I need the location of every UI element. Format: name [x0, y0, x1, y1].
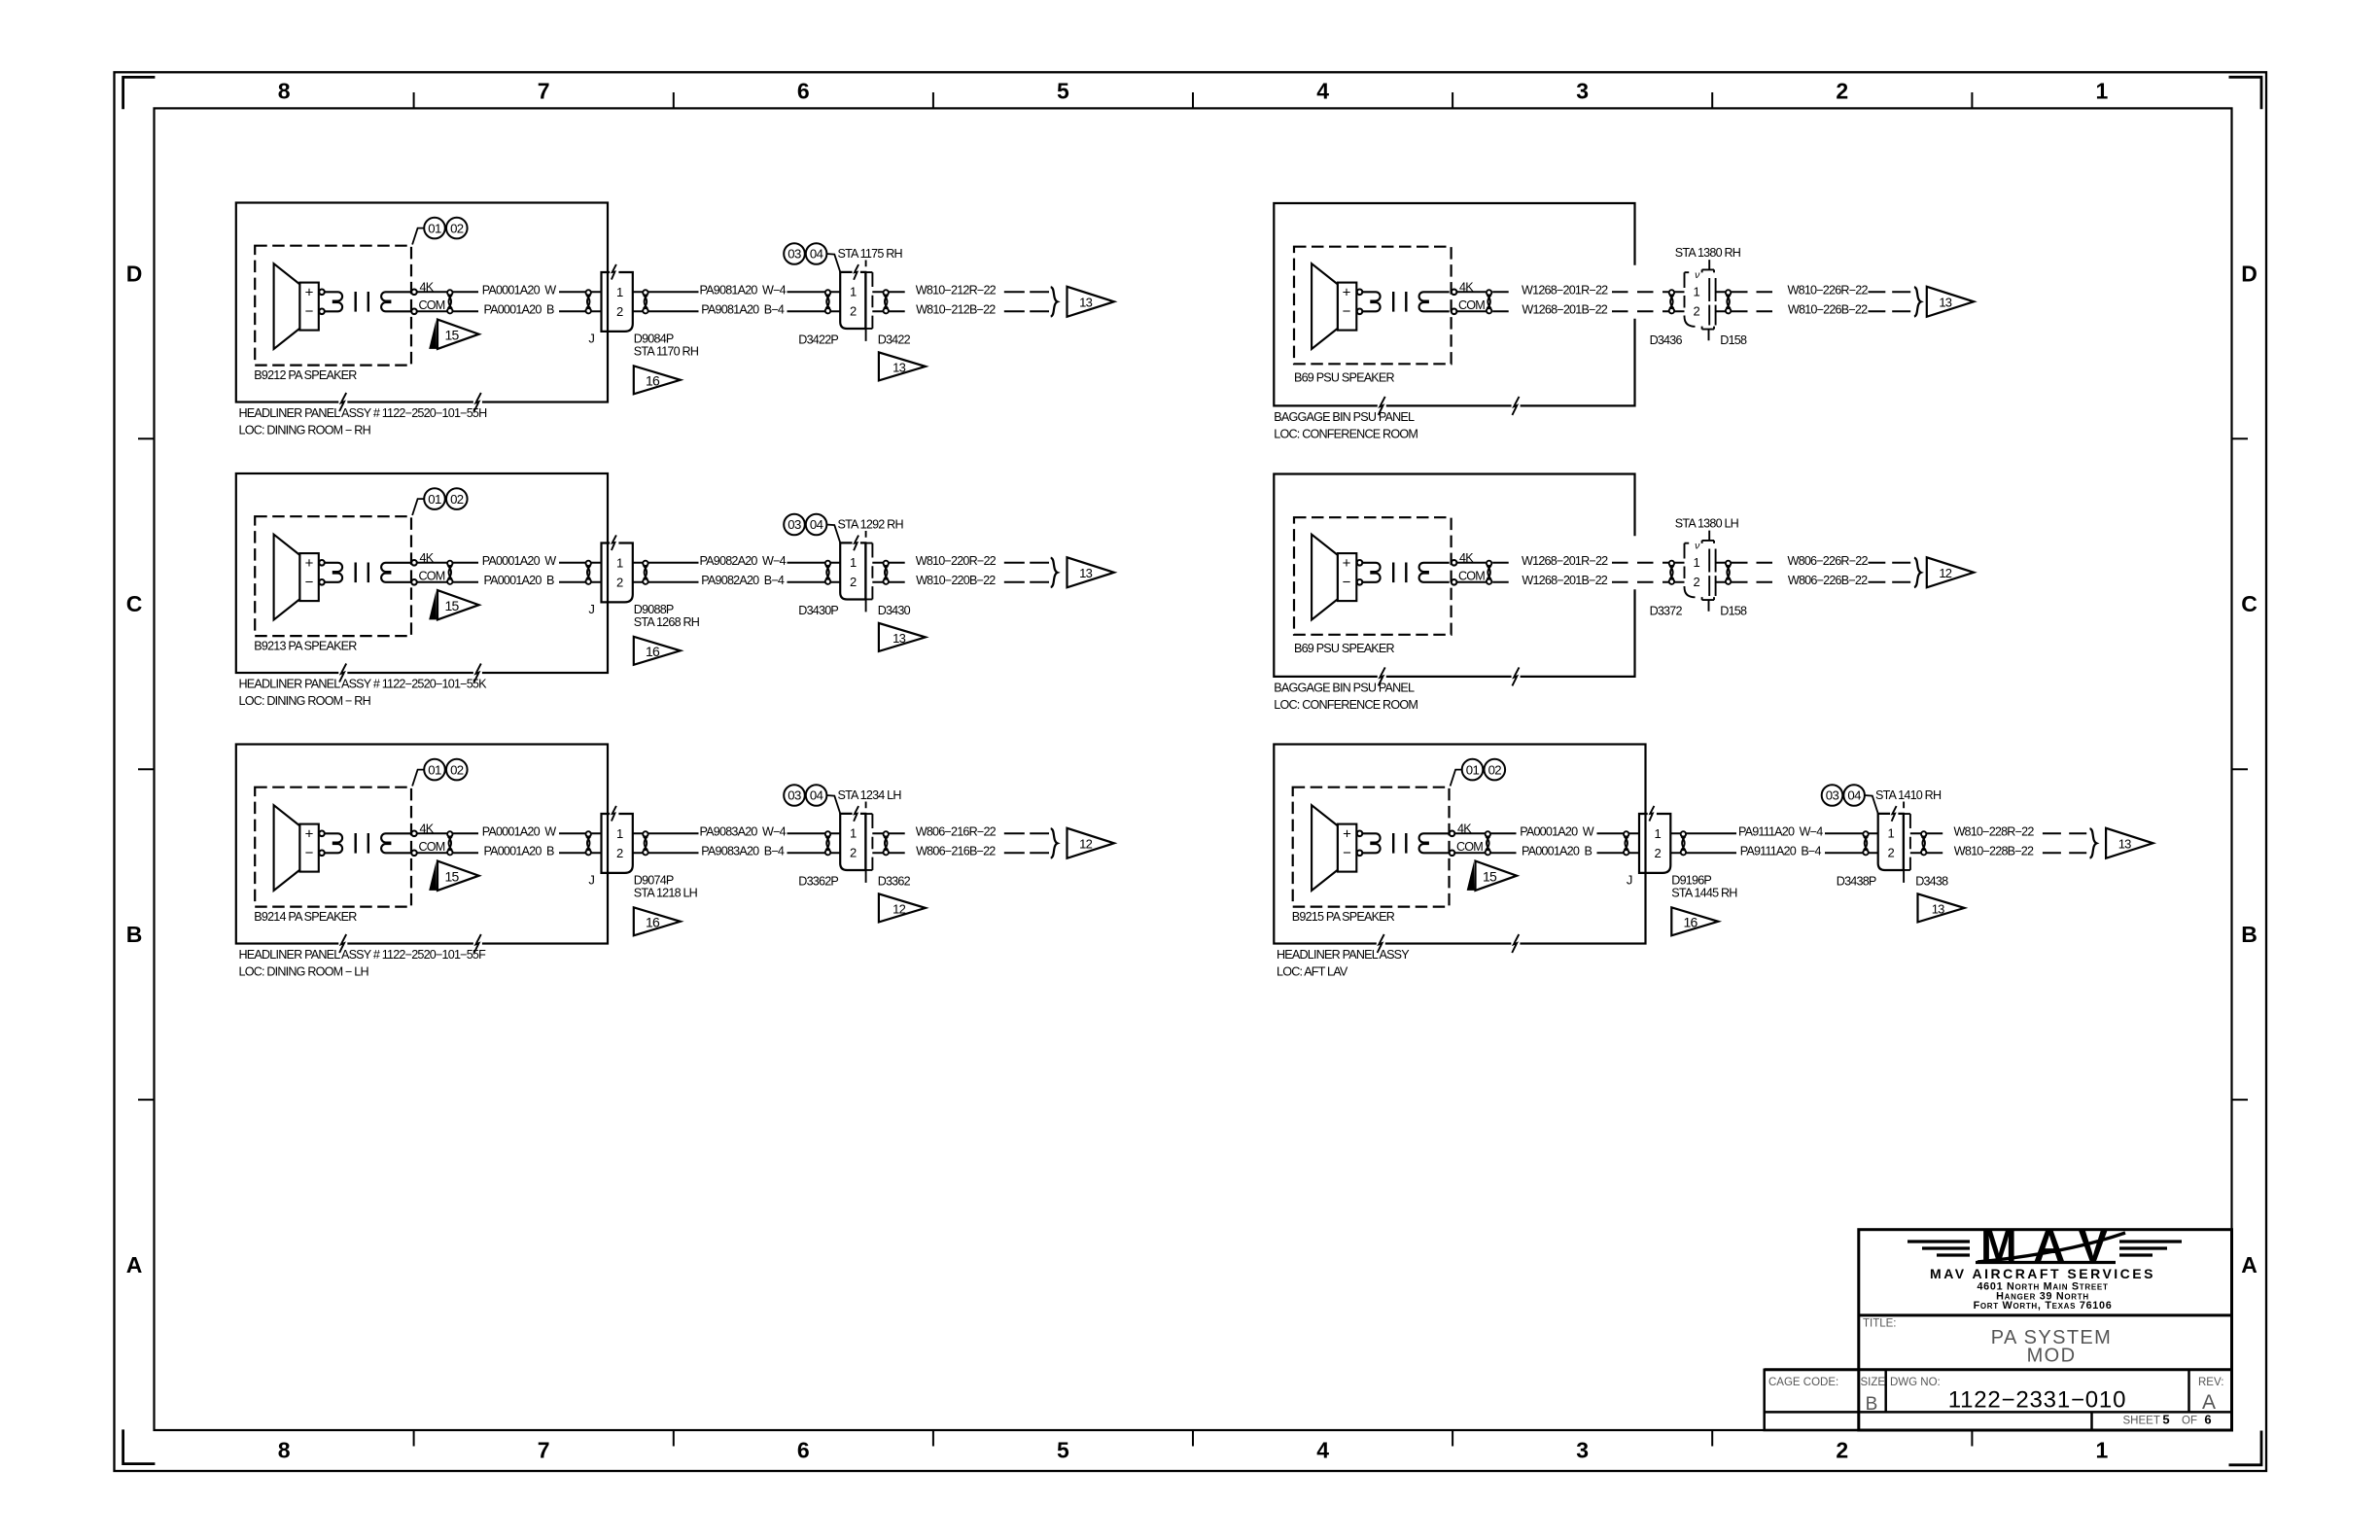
svg-text:W810−220B−22: W810−220B−22 — [916, 574, 996, 587]
svg-text:CAGE CODE:: CAGE CODE: — [1768, 1377, 1838, 1388]
svg-text:TITLE:: TITLE: — [1863, 1318, 1897, 1330]
svg-text:W1268−201R−22: W1268−201R−22 — [1522, 554, 1608, 568]
svg-text:5: 5 — [2162, 1413, 2169, 1427]
svg-text:D3430P: D3430P — [798, 604, 838, 617]
svg-text:1: 1 — [2096, 79, 2109, 104]
svg-text:SIZE: SIZE — [1861, 1377, 1886, 1388]
svg-text:HEADLINER PANEL ASSY: HEADLINER PANEL ASSY — [1277, 948, 1410, 962]
svg-text:STA 1170 RH: STA 1170 RH — [634, 345, 699, 359]
svg-text:STA 1292 RH: STA 1292 RH — [838, 518, 904, 532]
svg-text:D9074P: D9074P — [634, 873, 674, 887]
svg-text:B: B — [126, 922, 143, 947]
svg-text:LOC: CONFERENCE ROOM: LOC: CONFERENCE ROOM — [1274, 427, 1417, 440]
svg-text:W810−220R−22: W810−220R−22 — [916, 554, 997, 568]
svg-text:STA 1445 RH: STA 1445 RH — [1671, 887, 1737, 900]
svg-text:A: A — [2241, 1252, 2257, 1277]
svg-text:13: 13 — [1079, 566, 1092, 580]
svg-text:W1268−201B−22: W1268−201B−22 — [1522, 303, 1607, 317]
svg-text:12: 12 — [1939, 566, 1951, 580]
svg-text:BAGGAGE BIN PSU PANEL: BAGGAGE BIN PSU PANEL — [1274, 681, 1415, 694]
svg-text:12: 12 — [892, 901, 905, 916]
svg-text:B69 PSU SPEAKER: B69 PSU SPEAKER — [1294, 642, 1395, 655]
svg-text:B: B — [2241, 922, 2257, 947]
svg-text:13: 13 — [892, 360, 905, 374]
svg-text:5: 5 — [1057, 1438, 1069, 1463]
svg-text:D3438: D3438 — [1915, 875, 1948, 889]
svg-text:PA9082A20 B−4: PA9082A20 B−4 — [701, 574, 785, 587]
svg-text:W810−226B−22: W810−226B−22 — [1788, 303, 1868, 317]
svg-text:D3422P: D3422P — [798, 333, 838, 347]
svg-text:D: D — [126, 261, 143, 286]
svg-text:5: 5 — [1057, 79, 1069, 104]
svg-text:B69 PSU SPEAKER: B69 PSU SPEAKER — [1294, 370, 1395, 384]
svg-text:PA9083A20 W−4: PA9083A20 W−4 — [700, 825, 787, 839]
svg-text:B: B — [1866, 1394, 1878, 1415]
svg-text:LOC: DINING ROOM − RH: LOC: DINING ROOM − RH — [239, 694, 371, 708]
svg-text:13: 13 — [2118, 837, 2131, 852]
svg-text:D158: D158 — [1720, 604, 1747, 617]
svg-text:6: 6 — [797, 79, 810, 104]
svg-text:13: 13 — [1939, 296, 1951, 310]
svg-text:STA 1410 RH: STA 1410 RH — [1875, 788, 1942, 802]
svg-text:STA 1218 LH: STA 1218 LH — [634, 887, 698, 900]
svg-text:STA 1175 RH: STA 1175 RH — [838, 247, 903, 261]
svg-text:2: 2 — [1836, 1438, 1848, 1463]
svg-text:A: A — [2202, 1391, 2216, 1414]
svg-text:C: C — [126, 591, 143, 616]
svg-text:D3422: D3422 — [878, 333, 911, 347]
svg-text:13: 13 — [1932, 901, 1944, 916]
svg-text:4: 4 — [1316, 1438, 1329, 1463]
svg-text:W806−216B−22: W806−216B−22 — [916, 845, 996, 858]
svg-text:LOC: DINING ROOM − LH: LOC: DINING ROOM − LH — [239, 965, 369, 979]
svg-text:SHEET: SHEET — [2123, 1416, 2160, 1427]
svg-text:MOD: MOD — [2027, 1346, 2077, 1367]
svg-text:B9213 PA SPEAKER: B9213 PA SPEAKER — [254, 640, 357, 653]
svg-text:D9088P: D9088P — [634, 603, 674, 616]
svg-text:D3436: D3436 — [1650, 333, 1683, 347]
svg-text:3: 3 — [1576, 1438, 1589, 1463]
svg-text:PA9111A20 W−4: PA9111A20 W−4 — [1738, 825, 1823, 839]
svg-text:HEADLINER PANEL ASSY # 1122−25: HEADLINER PANEL ASSY # 1122−2520−101−55F — [239, 948, 487, 962]
svg-text:W1268−201R−22: W1268−201R−22 — [1522, 284, 1608, 297]
svg-text:D3362: D3362 — [878, 875, 911, 889]
svg-text:13: 13 — [1079, 296, 1092, 310]
svg-text:DWG NO:: DWG NO: — [1890, 1377, 1941, 1388]
svg-text:W1268−201B−22: W1268−201B−22 — [1522, 574, 1607, 587]
svg-text:13: 13 — [892, 631, 905, 646]
svg-text:W806−226R−22: W806−226R−22 — [1788, 554, 1869, 568]
svg-text:1: 1 — [2096, 1438, 2109, 1463]
svg-text:D3430: D3430 — [878, 604, 911, 617]
svg-text:3: 3 — [1576, 79, 1589, 104]
svg-text:4: 4 — [1316, 79, 1329, 104]
svg-text:D3438P: D3438P — [1837, 875, 1876, 889]
svg-text:7: 7 — [538, 1438, 550, 1463]
svg-text:W806−226B−22: W806−226B−22 — [1788, 574, 1868, 587]
svg-text:PA9081A20 W−4: PA9081A20 W−4 — [700, 284, 787, 297]
svg-text:12: 12 — [1079, 837, 1092, 852]
svg-text:B9215 PA SPEAKER: B9215 PA SPEAKER — [1292, 910, 1395, 924]
svg-text:LOC: AFT LAV: LOC: AFT LAV — [1277, 965, 1348, 979]
svg-text:D3372: D3372 — [1650, 604, 1683, 617]
svg-text:PA9082A20 W−4: PA9082A20 W−4 — [700, 554, 787, 568]
svg-text:W810−228B−22: W810−228B−22 — [1954, 845, 2034, 858]
svg-text:7: 7 — [538, 79, 550, 104]
svg-text:W810−228R−22: W810−228R−22 — [1953, 825, 2034, 839]
svg-text:D9196P: D9196P — [1671, 873, 1711, 887]
svg-text:PA9111A20 B−4: PA9111A20 B−4 — [1740, 845, 1822, 858]
svg-text:HEADLINER PANEL ASSY # 1122−25: HEADLINER PANEL ASSY # 1122−2520−101−55H — [239, 406, 488, 420]
svg-text:2: 2 — [1836, 79, 1848, 104]
svg-text:D9084P: D9084P — [634, 332, 674, 345]
svg-text:STA 1380 RH: STA 1380 RH — [1675, 246, 1741, 260]
svg-text:A: A — [126, 1252, 143, 1277]
svg-text:C: C — [2241, 591, 2257, 616]
svg-text:PA9083A20 B−4: PA9083A20 B−4 — [701, 845, 785, 858]
svg-text:B9214 PA SPEAKER: B9214 PA SPEAKER — [254, 910, 357, 924]
svg-text:D: D — [2241, 261, 2257, 286]
svg-text:PA9081A20 B−4: PA9081A20 B−4 — [701, 303, 785, 317]
svg-text:D158: D158 — [1720, 333, 1747, 347]
svg-text:MAV: MAV — [1980, 1221, 2124, 1271]
svg-text:MAV AIRCRAFT SERVICES: MAV AIRCRAFT SERVICES — [1930, 1266, 2155, 1281]
svg-text:OF: OF — [2182, 1416, 2197, 1427]
svg-text:6: 6 — [2204, 1413, 2211, 1427]
svg-text:BAGGAGE BIN PSU PANEL: BAGGAGE BIN PSU PANEL — [1274, 410, 1415, 424]
svg-text:Fort Worth, Texas 76106: Fort Worth, Texas 76106 — [1974, 1300, 2113, 1312]
svg-text:8: 8 — [278, 1438, 291, 1463]
svg-text:W810−212R−22: W810−212R−22 — [916, 284, 997, 297]
svg-text:LOC: DINING ROOM − RH: LOC: DINING ROOM − RH — [239, 424, 371, 437]
svg-text:W810−226R−22: W810−226R−22 — [1788, 284, 1869, 297]
svg-text:6: 6 — [797, 1438, 810, 1463]
svg-text:1122−2331−010: 1122−2331−010 — [1948, 1387, 2126, 1414]
svg-text:D3362P: D3362P — [798, 875, 838, 889]
svg-text:LOC: CONFERENCE ROOM: LOC: CONFERENCE ROOM — [1274, 698, 1417, 712]
svg-text:8: 8 — [278, 79, 291, 104]
svg-text:STA 1268 RH: STA 1268 RH — [634, 615, 700, 629]
svg-text:W806−216R−22: W806−216R−22 — [916, 825, 997, 839]
svg-text:B9212 PA SPEAKER: B9212 PA SPEAKER — [254, 368, 357, 382]
svg-text:REV:: REV: — [2198, 1377, 2223, 1388]
svg-text:STA 1380 LH: STA 1380 LH — [1675, 517, 1739, 531]
svg-text:STA 1234 LH: STA 1234 LH — [838, 788, 902, 802]
svg-text:W810−212B−22: W810−212B−22 — [916, 303, 996, 317]
svg-text:HEADLINER PANEL ASSY # 1122−25: HEADLINER PANEL ASSY # 1122−2520−101−55K — [239, 678, 488, 691]
